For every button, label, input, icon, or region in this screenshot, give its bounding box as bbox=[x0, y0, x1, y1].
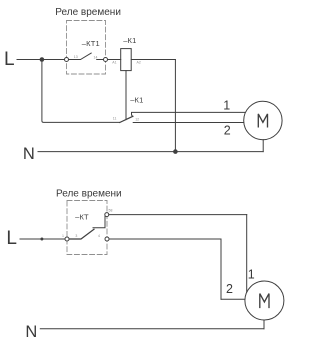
contact -KT1 left terminal bbox=[65, 58, 69, 62]
wire: right drop to N bbox=[174, 60, 176, 152]
wire: lower terminal run bbox=[109, 238, 221, 240]
contact -КТ upper throw arm bbox=[93, 216, 105, 227]
wire: fixed contact stub bbox=[97, 59, 104, 61]
wire: L feeder (top) bbox=[17, 59, 65, 61]
svg-text:–КТ: –КТ bbox=[75, 213, 89, 222]
wire: coil to right drop bbox=[131, 59, 175, 61]
svg-text:L: L bbox=[6, 228, 17, 249]
wire: motor to N bbox=[262, 140, 264, 152]
svg-text:–К1: –К1 bbox=[123, 36, 136, 45]
svg-text:12: 12 bbox=[135, 118, 139, 122]
wire: coil bottom tail bbox=[125, 71, 127, 120]
svg-text:3: 3 bbox=[75, 234, 77, 238]
svg-text:2: 2 bbox=[224, 123, 231, 137]
svg-text:L: L bbox=[4, 49, 15, 70]
svg-text:13: 13 bbox=[74, 55, 78, 59]
svg-text:–КТ1: –КТ1 bbox=[82, 39, 100, 48]
svg-text:N: N bbox=[25, 323, 37, 341]
svg-text:1: 1 bbox=[248, 268, 255, 282]
svg-text:Реле времени: Реле времени bbox=[55, 7, 121, 18]
svg-text:–К1: –К1 bbox=[130, 95, 143, 104]
svg-text:2: 2 bbox=[226, 282, 233, 296]
wire: contact to coil bbox=[108, 59, 121, 61]
motor M (top) bbox=[244, 101, 282, 139]
time relay dashed enclosure (bottom) bbox=[67, 201, 107, 255]
svg-text:58: 58 bbox=[109, 209, 113, 213]
relay coil -K1 bbox=[121, 49, 132, 71]
contact -KT1 blade bbox=[69, 53, 92, 59]
wire: right drop to motor (1) bbox=[246, 215, 248, 293]
svg-text:14: 14 bbox=[94, 56, 98, 60]
time relay dashed enclosure (top) bbox=[67, 21, 106, 75]
wire: motor to N (bottom) bbox=[263, 320, 265, 328]
svg-text:4: 4 bbox=[98, 234, 100, 238]
wire 2: run to motor bbox=[133, 122, 244, 124]
wire 1: hook and run to motor bbox=[132, 112, 247, 116]
wire: into motor (2) bbox=[221, 298, 245, 300]
wire: upper terminal to right drop bbox=[109, 214, 247, 216]
wire: N bus (bottom) bbox=[40, 328, 264, 330]
contact -КТ upper terminal bbox=[105, 213, 109, 217]
contact -КТ common terminal bbox=[65, 237, 69, 241]
svg-text:A2: A2 bbox=[137, 60, 141, 64]
svg-text:1: 1 bbox=[62, 234, 64, 238]
svg-text:1: 1 bbox=[223, 99, 230, 113]
wire: drop to motor level bbox=[220, 239, 222, 299]
wire: L feeder (bottom) bbox=[20, 238, 65, 240]
svg-text:11: 11 bbox=[113, 117, 117, 121]
contact -КТ blade bbox=[69, 229, 94, 239]
contact -КТ lower terminal bbox=[105, 237, 109, 241]
motor M (bottom) bbox=[245, 281, 284, 320]
wire: N bus (top) bbox=[38, 151, 263, 153]
junction on L line bbox=[40, 57, 45, 62]
contact -KT1 right terminal bbox=[104, 58, 108, 62]
tie point on L line bbox=[40, 238, 43, 241]
contact -K1 blade bbox=[120, 116, 133, 122]
junction on N line bbox=[173, 149, 178, 154]
svg-text:A1: A1 bbox=[112, 60, 116, 64]
svg-text:Реле времени: Реле времени bbox=[56, 189, 122, 200]
wire: branch down to contact -K1 bbox=[42, 60, 120, 123]
svg-text:N: N bbox=[23, 145, 35, 163]
